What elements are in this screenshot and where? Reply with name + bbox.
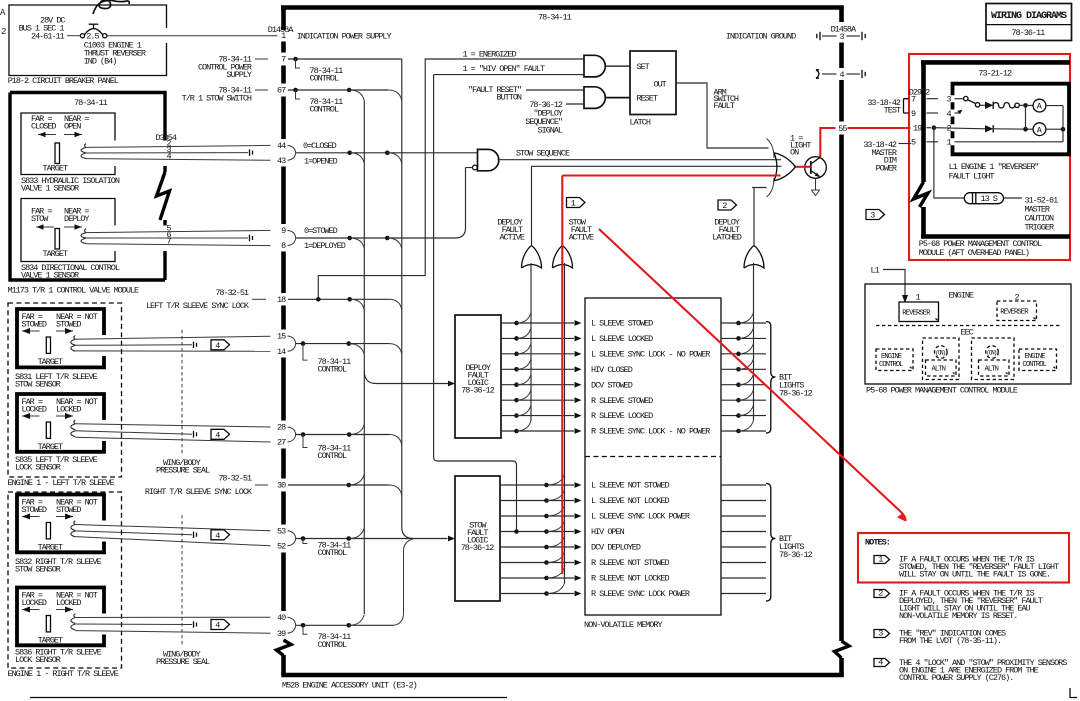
S831 coil xyxy=(71,336,76,352)
svg-text:LEFT T/R SLEEVE SYNC LOCK: LEFT T/R SLEEVE SYNC LOCK xyxy=(146,301,250,311)
S833 label TARGET xyxy=(43,164,68,174)
svg-text:9: 9 xyxy=(281,226,286,236)
circuit breaker C1003 handle xyxy=(89,24,99,28)
S832 label NEAR = NOT xyxy=(56,498,98,508)
EAU right bar zigzag xyxy=(835,641,850,658)
S832 wire mid shield xyxy=(75,531,196,538)
arc 28 into bus2 down xyxy=(389,435,402,446)
lamp test switch blade xyxy=(968,100,976,104)
svg-text:NON-VOLATILE MEMORY IS RESET.: NON-VOLATILE MEMORY IS RESET. xyxy=(899,611,1017,621)
memory input label R SLEEVE SYNC LOCK POWER xyxy=(591,589,690,599)
svg-text:9: 9 xyxy=(911,109,916,119)
S833 far arrow xyxy=(38,132,56,138)
svg-text:IND (B4): IND (B4) xyxy=(84,57,117,67)
svg-text:30: 30 xyxy=(277,481,286,491)
svg-text:78-34-11: 78-34-11 xyxy=(538,13,572,23)
label 1 = ENERGIZED xyxy=(463,50,517,60)
OR gate deploy fault active xyxy=(522,246,542,269)
svg-text:CLOSED: CLOSED xyxy=(31,122,56,132)
svg-text:DEPLOY: DEPLOY xyxy=(64,214,89,224)
svg-text:RESET: RESET xyxy=(637,94,658,104)
S831 label TARGET xyxy=(38,357,63,367)
memory output wire bottom HIV OPEN xyxy=(721,531,766,533)
junction dot left bottom L SLEEVE SYNC LOCK POWER xyxy=(544,514,549,519)
label M1173 T/R 1 CONTROL VALVE MODULE xyxy=(8,286,140,296)
memory input wire L SLEEVE LOCKED xyxy=(501,336,582,342)
svg-text:R SLEEVE SYNC LOCK POWER: R SLEEVE SYNC LOCK POWER xyxy=(591,589,690,599)
svg-text:0=CLOSED: 0=CLOSED xyxy=(303,141,337,151)
S831 label FAR = xyxy=(22,312,43,322)
light OR gate input collector arc upper xyxy=(767,139,775,159)
svg-text:TARGET: TARGET xyxy=(38,357,63,367)
label LOCK SENSOR S836 xyxy=(15,655,61,665)
svg-text:1=DEPLOYED: 1=DEPLOYED xyxy=(304,241,346,251)
wire pin 2 row xyxy=(934,128,985,129)
wire stow sequence output xyxy=(498,159,782,161)
arc 15 bus1 xyxy=(349,344,365,355)
S835 label FAR = xyxy=(22,397,43,407)
transistor ground stem xyxy=(815,178,817,190)
svg-text:FAULT LIGHT: FAULT LIGHT xyxy=(949,172,995,182)
label BIT LIGHTS 78-36-12 lower xyxy=(779,534,813,560)
svg-text:24-61-11: 24-61-11 xyxy=(31,31,65,41)
arc 9 bus2 xyxy=(387,238,402,249)
memory input label L SLEEVE LOCKED xyxy=(591,334,653,344)
EAU bottom border xyxy=(281,673,844,678)
label 1 = LIGHT ON xyxy=(790,133,811,157)
svg-text:OPEN: OPEN xyxy=(64,122,81,132)
junction dot left bottom HIV OPEN xyxy=(544,529,549,534)
stub 15/14 control xyxy=(303,344,308,361)
arc into deploy-active bundle L SLEEVE STOWED xyxy=(517,313,532,324)
wire fault reset xyxy=(526,89,584,91)
TEST bracket xyxy=(904,99,909,113)
label 1 = HIV OPEN FAULT xyxy=(463,64,546,74)
wire lamp A1 out xyxy=(1046,105,1063,107)
wire to time delay xyxy=(934,128,964,198)
svg-text:LATCH: LATCH xyxy=(630,117,651,127)
S834 label TARGET xyxy=(43,249,68,259)
bundle deploy active vertical xyxy=(530,263,532,421)
stub 28/27 control xyxy=(303,435,308,448)
S831 note flag 4 xyxy=(211,340,230,351)
arc into deploy-active bundle L SLEEVE LOCKED xyxy=(517,328,532,339)
module M1173 border xyxy=(10,93,170,281)
cross link lamps xyxy=(1025,105,1027,129)
svg-text:1 = ENERGIZED: 1 = ENERGIZED xyxy=(463,50,517,60)
S833 label FAR = xyxy=(31,114,52,124)
label BUTTON xyxy=(497,93,522,103)
memory output wire L SLEEVE SYNC LOCK - NO POWER xyxy=(721,353,766,355)
arc 53 bus1 up xyxy=(349,528,365,539)
S831 wire top xyxy=(75,336,270,339)
bundle stow active vertical xyxy=(564,263,566,584)
wire latch out arm switch fault xyxy=(676,83,769,148)
P5-68 thick border top xyxy=(921,60,1070,65)
junction dot left L SLEEVE SYNC LOCK - NO POWER xyxy=(514,352,519,357)
S832 far arrow xyxy=(22,514,40,520)
label engine 1 xyxy=(916,293,921,303)
wire pin 7 to bus xyxy=(288,59,402,110)
pin 9/8 bracket xyxy=(288,230,296,245)
arc into stow-active bundle L SLEEVE SYNC LOCK POWER xyxy=(547,506,565,517)
wire breaker to pin 1 D1458A xyxy=(107,35,278,37)
label 78-34-11 CONTROL 28/27 xyxy=(318,444,352,462)
BIT LIGHTS brace upper xyxy=(766,322,776,434)
svg-text:ENGINE 1 - RIGHT T/R SLEEVE: ENGINE 1 - RIGHT T/R SLEEVE xyxy=(8,669,119,679)
label 78-36-12 deploy sequence xyxy=(525,100,563,136)
label 33-18-42 TEST xyxy=(867,98,901,116)
wire pin 4 left curly xyxy=(816,70,837,78)
label LATCH xyxy=(630,117,651,127)
svg-text:78-36-12: 78-36-12 xyxy=(779,389,813,399)
bottom page border line xyxy=(30,697,507,699)
arc 40 bus1 up xyxy=(349,615,365,626)
label ENGINE title xyxy=(949,290,974,300)
memory output wire R SLEEVE STOWED xyxy=(721,399,766,401)
svg-text:CONTROL: CONTROL xyxy=(318,548,347,558)
S836 label FAR = xyxy=(22,591,43,601)
svg-text:CONTROL POWER SUPPLY (C276).: CONTROL POWER SUPPLY (C276). xyxy=(899,673,1013,683)
non-volatile memory box xyxy=(585,298,721,615)
stub pin 7 control xyxy=(296,59,301,68)
arc into stow-active bundle R SLEEVE NOT STOWED xyxy=(547,552,565,563)
arc into deploy-active bundle HIV CLOSED xyxy=(517,359,532,370)
S833 near arrow xyxy=(64,132,82,138)
wire master dim to pin 5 xyxy=(899,143,912,145)
svg-text:73-21-12: 73-21-12 xyxy=(978,69,1012,79)
label RIGHT T/R SLEEVE SYNC LOCK xyxy=(145,487,253,497)
label SET xyxy=(637,62,650,72)
wire deploy sequence stub xyxy=(566,103,584,105)
S833 wire pin2 to 44 xyxy=(86,139,271,149)
svg-text:78-32-51: 78-32-51 xyxy=(218,474,252,484)
label 28V DC xyxy=(40,16,65,26)
svg-text:R SLEEVE NOT LOCKED: R SLEEVE NOT LOCKED xyxy=(591,574,669,584)
S833 wire pin3 shield xyxy=(86,145,253,156)
S834 target bar xyxy=(55,229,60,250)
bundle deploy latched vertical xyxy=(753,263,755,421)
junction dot right L SLEEVE LOCKED xyxy=(736,336,741,341)
label BIT LIGHTS 78-36-12 upper xyxy=(779,373,813,399)
S831 far arrow xyxy=(22,328,40,334)
arc into deploy-active bundle R SLEEVE SYNC LOCK - NO POWER xyxy=(517,421,532,432)
S832 wire bottom xyxy=(75,537,270,546)
svg-text:INDICATION GROUND: INDICATION GROUND xyxy=(726,32,796,42)
svg-text:TARGET: TARGET xyxy=(43,164,68,174)
ENGINE CONTROL dashed right xyxy=(1019,349,1057,371)
svg-text:ALTN: ALTN xyxy=(932,366,946,374)
P5-68 thick border left xyxy=(914,62,929,236)
bundle bus deploy vertical xyxy=(363,101,365,614)
label PRESSURE SEAL upper xyxy=(156,466,210,476)
svg-text:78-36-11: 78-36-11 xyxy=(1012,28,1046,38)
svg-text:55: 55 xyxy=(838,124,847,134)
EAU right connector bar xyxy=(839,8,844,676)
svg-text:STOW SEQUENCE: STOW SEQUENCE xyxy=(516,149,570,159)
junction dot left bottom R SLEEVE SYNC LOCK POWER xyxy=(544,591,549,596)
wire 0=STOWED row xyxy=(296,168,466,239)
label NON-VOLATILE MEMORY xyxy=(584,620,662,630)
junction dot left bottom R SLEEVE NOT LOCKED xyxy=(544,576,549,581)
svg-text:INDICATION POWER SUPPLY: INDICATION POWER SUPPLY xyxy=(297,32,392,42)
label OUT xyxy=(654,79,667,89)
svg-text:SUPPLY: SUPPLY xyxy=(227,70,252,80)
wire HIV open fault route xyxy=(434,75,517,531)
S832 label FAR = xyxy=(22,498,43,508)
svg-text:53: 53 xyxy=(277,526,286,536)
S836 label LOCKED 2 xyxy=(56,598,81,608)
S833 wire pin4 to 43 xyxy=(86,152,271,162)
S833 label NEAR = xyxy=(64,114,89,124)
junction dot left R SLEEVE STOWED xyxy=(514,398,519,403)
svg-text:44: 44 xyxy=(277,141,286,151)
junction dot left L SLEEVE LOCKED xyxy=(514,336,519,341)
junction dot left R SLEEVE LOCKED xyxy=(514,413,519,418)
label RESET xyxy=(637,94,658,104)
S835 label NEAR = NOT xyxy=(56,397,98,407)
note flag 1 xyxy=(874,555,890,565)
svg-text:STOWED: STOWED xyxy=(56,505,81,515)
pin 40/39 bracket xyxy=(288,617,296,633)
svg-text:CONTROL: CONTROL xyxy=(310,105,339,115)
S834 label NEAR = xyxy=(64,207,89,217)
(ON) circle group 2 xyxy=(986,346,999,359)
dashed box ENGINE 1 - LEFT T/R SLEEVE xyxy=(8,303,122,477)
stow fault logic box xyxy=(455,476,500,601)
OR gate stow fault active xyxy=(553,246,573,269)
arc into stow-active bundle HIV OPEN xyxy=(547,521,565,532)
wire pin 4 right xyxy=(847,70,866,78)
svg-text:POWER: POWER xyxy=(876,163,897,173)
S835 wire mid shield xyxy=(75,431,196,438)
pin 4 number xyxy=(840,70,845,80)
memory box dashed divider xyxy=(585,456,721,458)
wire deploy active to light OR xyxy=(532,166,782,245)
wire pin 3 ground left xyxy=(817,32,837,40)
svg-text:TARGET: TARGET xyxy=(43,249,68,259)
wire 53/52 stow input row xyxy=(296,536,455,542)
engine panel box xyxy=(865,284,1071,384)
wire 28/27 row xyxy=(296,434,389,436)
S835 far arrow xyxy=(22,413,40,419)
wire time delay out xyxy=(1004,197,1023,199)
S834 wire pin7 to 8 xyxy=(86,237,271,247)
svg-text:PRESSURE SEAL: PRESSURE SEAL xyxy=(156,466,210,476)
label THRUST REVERSER xyxy=(84,49,146,59)
test point arrow row 4 xyxy=(955,110,963,114)
pin 44/43 bracket xyxy=(288,145,296,160)
svg-text:STOWED: STOWED xyxy=(22,320,47,330)
memory input label DCV STOWED xyxy=(591,380,633,390)
svg-text:ACTIVE: ACTIVE xyxy=(569,233,594,243)
arc into deploy-active bundle L SLEEVE SYNC LOCK - NO POWER xyxy=(517,343,532,354)
label 1=DEPLOYED xyxy=(304,241,346,251)
memory output wire bottom R SLEEVE NOT LOCKED xyxy=(721,577,766,579)
svg-text:LOCKED: LOCKED xyxy=(22,405,47,415)
memory input label R SLEEVE NOT LOCKED xyxy=(591,574,669,584)
wire switch to diode xyxy=(980,104,985,106)
memory input wire L SLEEVE SYNC LOCK - NO POWER xyxy=(501,351,582,357)
svg-text:8: 8 xyxy=(281,241,286,251)
S836 near arrow xyxy=(56,607,73,613)
arc 28 bus1 up xyxy=(349,424,364,435)
svg-text:CONTROL: CONTROL xyxy=(318,640,347,650)
svg-text:CONTROL: CONTROL xyxy=(318,451,347,461)
memory output wire bottom R SLEEVE NOT STOWED xyxy=(721,562,766,564)
svg-text:STOWED: STOWED xyxy=(56,320,81,330)
pin 5 D2952 xyxy=(911,138,938,148)
svg-text:STOW SENSOR: STOW SENSOR xyxy=(15,380,61,390)
S831 near arrow xyxy=(56,328,73,334)
circuit breaker panel box P18-2 xyxy=(9,5,167,76)
AND gate input stub bubble xyxy=(466,167,473,169)
label ARM SWITCH FAULT xyxy=(714,88,739,111)
junction dot left bottom L SLEEVE NOT LOCKED xyxy=(544,498,549,503)
svg-text:TARGET: TARGET xyxy=(38,542,63,552)
label EEC xyxy=(961,328,974,338)
label 78-34-11 CONTROL pin7 xyxy=(310,66,344,84)
label STOW FAULT LOGIC 78-36-12 xyxy=(461,521,495,554)
S831 label NEAR = NOT xyxy=(56,312,98,322)
S836 coil xyxy=(71,614,76,630)
arc into latched bundle L SLEEVE SYNC LOCK - NO POWER xyxy=(739,343,754,354)
label L1 node xyxy=(871,265,880,275)
svg-text:0=STOWED: 0=STOWED xyxy=(304,226,338,236)
label 78-34-11 t/r 1 stow switch xyxy=(182,86,268,104)
svg-text:28: 28 xyxy=(277,423,286,433)
note flag 2 deploy latched xyxy=(718,200,737,211)
arc into latched bundle L SLEEVE STOWED xyxy=(739,313,754,324)
svg-text:4: 4 xyxy=(840,70,845,80)
junction dot left R SLEEVE SYNC LOCK - NO POWER xyxy=(514,429,519,434)
connector D1458A pin numbers xyxy=(277,31,286,639)
svg-text:78-36-12: 78-36-12 xyxy=(779,550,813,560)
wire pin 3 to switch xyxy=(955,98,964,100)
wire sync lock 18 row xyxy=(288,298,389,300)
svg-text:STOWED: STOWED xyxy=(22,505,47,515)
memory input wire L SLEEVE STOWED xyxy=(501,320,582,326)
AND gate U2 reset xyxy=(584,87,605,109)
svg-text:L SLEEVE STOWED: L SLEEVE STOWED xyxy=(591,319,653,329)
note flag 3 xyxy=(874,629,890,639)
note flag 1 stow fault xyxy=(567,198,586,209)
label C1003 ENGINE 1 xyxy=(84,41,142,51)
memory output wire bottom L SLEEVE NOT LOCKED xyxy=(721,500,766,502)
svg-text:L SLEEVE NOT STOWED: L SLEEVE NOT STOWED xyxy=(591,481,669,491)
lamp test switch contact 1 xyxy=(964,96,968,100)
svg-text:MODULE (AFT OVERHEAD PANEL): MODULE (AFT OVERHEAD PANEL) xyxy=(919,248,1029,258)
memory input label L SLEEVE SYNC LOCK - NO POWER xyxy=(591,349,710,359)
memory output wire L SLEEVE LOCKED xyxy=(721,337,766,339)
bus deploy branch arrow xyxy=(364,371,455,386)
svg-text:CONTROL: CONTROL xyxy=(879,361,903,369)
junction dot left bottom R SLEEVE NOT STOWED xyxy=(544,560,549,565)
junction dot lamp row 3 xyxy=(1023,103,1028,108)
label P5-68 POWER MANAGEMENT CONTROL MODULE xyxy=(866,385,1018,395)
memory input wire DCV DEPLOYED xyxy=(500,544,582,550)
svg-text:HIV CLOSED: HIV CLOSED xyxy=(591,365,633,375)
S834 wire pin5 to 9 xyxy=(86,224,271,234)
junction dot 28 stub xyxy=(301,432,306,437)
svg-text:LOCKED: LOCKED xyxy=(56,598,81,608)
svg-text:FROM THE LVDT (78-35-11).: FROM THE LVDT (78-35-11). xyxy=(899,636,1001,646)
junction dot 44 bus2 xyxy=(385,151,390,156)
wire deploy latched up xyxy=(752,188,767,246)
S835 wire top xyxy=(75,424,270,427)
memory input wire L SLEEVE NOT LOCKED xyxy=(500,498,582,504)
bundle bus stow lower tail xyxy=(394,539,415,626)
S835 coil xyxy=(71,420,76,437)
S835 label TARGET xyxy=(38,442,63,452)
memory input label L SLEEVE SYNC LOCK POWER xyxy=(591,512,690,522)
svg-text:L1: L1 xyxy=(871,265,880,275)
pin 53/52 bracket xyxy=(288,531,296,546)
svg-text:EEC: EEC xyxy=(961,328,974,338)
wire U2 out to RESET xyxy=(606,97,630,99)
ALTN box group 2 xyxy=(979,360,1010,376)
label ENGINE 1 - LEFT T/R SLEEVE xyxy=(8,478,115,488)
label 73-21-12 xyxy=(978,69,1012,79)
latch box xyxy=(630,51,676,115)
junction dot 67 bus1 xyxy=(347,88,352,93)
label MODULE AFT OVERHEAD PANEL xyxy=(919,248,1029,258)
svg-text:NON-VOLATILE MEMORY: NON-VOLATILE MEMORY xyxy=(584,620,662,630)
svg-text:LOCK SENSOR: LOCK SENSOR xyxy=(15,463,61,473)
label BUS 1 SEC 1 xyxy=(19,24,65,34)
svg-text:14: 14 xyxy=(277,347,286,357)
svg-text:13 S: 13 S xyxy=(981,194,998,204)
label 31-52-61 MASTER CAUTION TRIGGER xyxy=(1025,196,1059,233)
svg-text:78-34-11: 78-34-11 xyxy=(74,98,108,108)
deploy fault logic box xyxy=(455,315,501,438)
label PRESSURE SEAL lower xyxy=(156,657,210,667)
time delay 13S capsule xyxy=(964,193,1003,204)
S833 coil xyxy=(81,144,86,159)
label S833 HYDRAULIC ISOLATION xyxy=(21,176,120,186)
svg-text:ENGINE: ENGINE xyxy=(949,290,974,300)
label ENGINE 1 - RIGHT T/R SLEEVE xyxy=(8,669,119,679)
junction dot 18 bus1 xyxy=(347,297,352,302)
lamp A1 xyxy=(1033,99,1046,112)
red diagonal callout line xyxy=(599,229,906,522)
wing/body pressure seal line upper xyxy=(181,330,183,456)
svg-text:67: 67 xyxy=(277,86,286,96)
S833 label CLOSED xyxy=(31,122,56,132)
label S835 LEFT T/R SLEEVE xyxy=(15,455,98,465)
arc into stow-active bundle R SLEEVE SYNC LOCK POWER xyxy=(547,583,565,594)
svg-text:15: 15 xyxy=(277,332,286,342)
svg-text:78-36-12: 78-36-12 xyxy=(461,386,495,396)
S836 target bar xyxy=(46,616,50,632)
arc into stow-active bundle L SLEEVE NOT LOCKED xyxy=(547,490,565,501)
S836 note flag 4 xyxy=(211,620,230,631)
svg-text:L1 ENGINE 1 "REVERSER": L1 ENGINE 1 "REVERSER" xyxy=(949,162,1039,172)
svg-text:L SLEEVE SYNC LOCK - NO POWER: L SLEEVE SYNC LOCK - NO POWER xyxy=(591,349,710,359)
memory input label R SLEEVE STOWED xyxy=(591,396,653,406)
note flag 3 left of module xyxy=(866,210,885,221)
svg-text:NOTES:: NOTES: xyxy=(865,537,890,547)
arc 67 into bus1 xyxy=(349,90,364,101)
junction dot right R SLEEVE STOWED xyxy=(736,398,741,403)
svg-text:A: A xyxy=(1037,125,1043,135)
S835 label LOCKED 2 xyxy=(56,405,81,415)
arc into latched bundle L SLEEVE LOCKED xyxy=(739,328,754,339)
arc into deploy-active bundle R SLEEVE LOCKED xyxy=(517,405,532,416)
wire 30 row xyxy=(288,484,389,486)
sensor S834 box xyxy=(21,199,115,262)
pin 19 D2952 xyxy=(913,124,931,134)
